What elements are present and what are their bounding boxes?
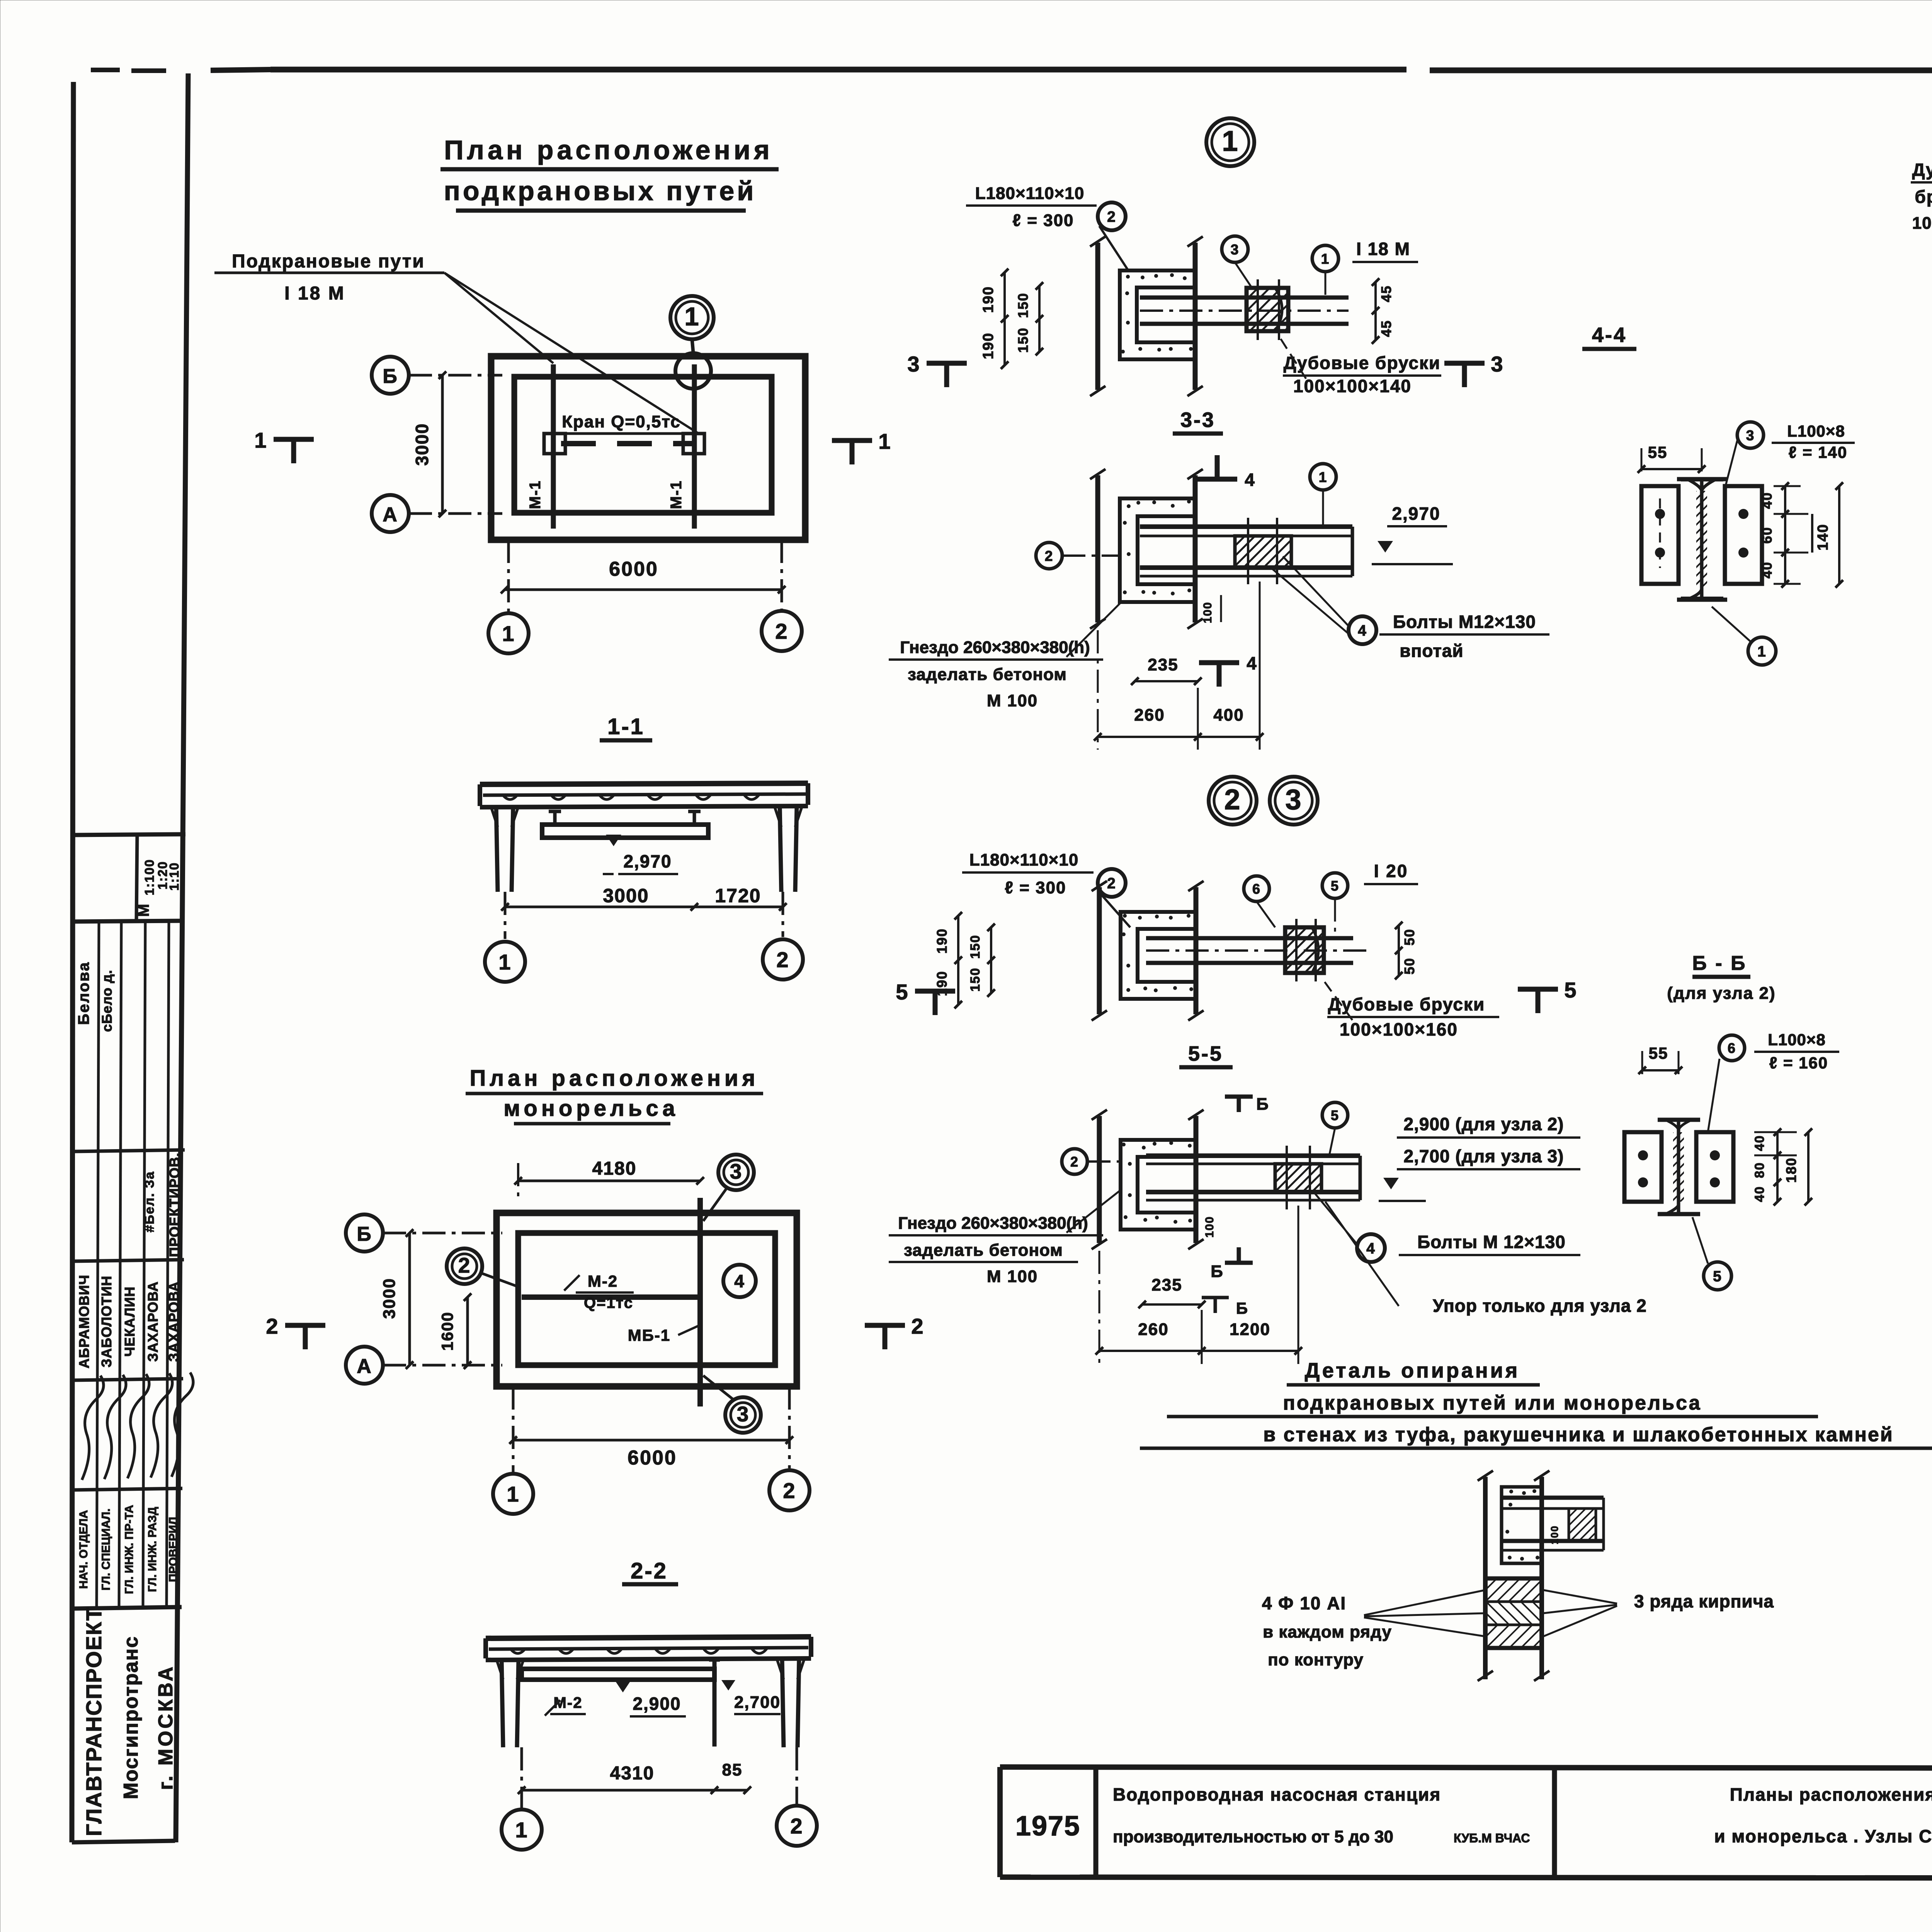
svg-text:2: 2	[266, 1314, 279, 1338]
svg-text:Планы расположения подкранов: Планы расположения подкрановых путей	[1730, 1784, 1932, 1804]
svg-text:Дубовые бруски: Дубовые бруски	[1328, 994, 1485, 1014]
svg-text:бруски: бруски	[1915, 187, 1932, 207]
svg-text:А: А	[357, 1355, 372, 1378]
svg-text:Деталь опирания: Деталь опирания	[1305, 1359, 1520, 1382]
svg-text:Гнездо 260×380×380(h): Гнездо 260×380×380(h)	[900, 638, 1090, 657]
svg-text:6000: 6000	[609, 558, 658, 580]
svg-text:4: 4	[1245, 469, 1255, 490]
svg-text:АБРАМОВИЧ: АБРАМОВИЧ	[76, 1275, 92, 1369]
svg-text:55: 55	[1648, 443, 1668, 461]
svg-text:5: 5	[1331, 1107, 1339, 1123]
svg-text:2: 2	[458, 1253, 471, 1277]
svg-text:монорельса: монорельса	[503, 1096, 679, 1121]
svg-text:1720: 1720	[715, 885, 761, 906]
svg-text:1:10: 1:10	[167, 862, 181, 891]
svg-text:4: 4	[1358, 622, 1367, 639]
svg-text:I 20: I 20	[1374, 861, 1408, 881]
svg-text:2: 2	[775, 619, 788, 643]
svg-text:М-2: М-2	[588, 1272, 618, 1290]
svg-text:100×100×160: 100×100×160	[1340, 1019, 1458, 1039]
svg-text:1: 1	[507, 1482, 519, 1506]
svg-text:3: 3	[907, 352, 920, 376]
svg-text:2: 2	[1107, 209, 1116, 225]
svg-text:50: 50	[1401, 929, 1417, 946]
svg-text:ЧЕКАЛИН: ЧЕКАЛИН	[122, 1286, 138, 1357]
svg-text:впотай: впотай	[1400, 641, 1463, 661]
svg-text:Мосгипротранс: Мосгипротранс	[120, 1636, 142, 1799]
svg-text:2: 2	[1045, 548, 1054, 564]
svg-text:1: 1	[254, 428, 267, 452]
svg-text:ЗАХАРОВА: ЗАХАРОВА	[166, 1281, 182, 1362]
svg-text:2,700: 2,700	[734, 1693, 781, 1712]
svg-text:180: 180	[1783, 1157, 1799, 1183]
svg-text:Дубовые бруски: Дубовые бруски	[1284, 353, 1441, 373]
svg-text:1: 1	[515, 1818, 528, 1842]
svg-text:2: 2	[911, 1314, 924, 1338]
svg-text:Гнездо 260×380×380(h): Гнездо 260×380×380(h)	[898, 1214, 1088, 1233]
svg-text:4 Ф 10 АI: 4 Ф 10 АI	[1262, 1593, 1346, 1613]
svg-text:5: 5	[1331, 878, 1339, 894]
svg-text:190: 190	[934, 928, 950, 954]
svg-text:2,700 (для узла 3): 2,700 (для узла 3)	[1404, 1146, 1564, 1166]
svg-text:1: 1	[502, 621, 515, 646]
svg-text:КУБ.М ВЧАС: КУБ.М ВЧАС	[1454, 1831, 1530, 1845]
svg-text:100: 100	[1201, 602, 1214, 623]
svg-text:55: 55	[1649, 1044, 1668, 1062]
svg-text:ПРОЕКТИРОВ.: ПРОЕКТИРОВ.	[167, 1153, 182, 1257]
svg-text:производительностью от 5 до 3: производительностью от 5 до 30	[1113, 1827, 1393, 1846]
svg-text:I 18 М: I 18 М	[1356, 239, 1410, 259]
svg-text:1-1: 1-1	[607, 714, 645, 739]
svg-text:3: 3	[1746, 427, 1755, 443]
svg-text:(для узла 2): (для узла 2)	[1667, 984, 1776, 1003]
svg-text:6: 6	[1252, 881, 1261, 897]
svg-text:ℓ = 160: ℓ = 160	[1769, 1054, 1828, 1072]
svg-text:40: 40	[1759, 492, 1775, 509]
svg-text:3000: 3000	[603, 885, 649, 906]
svg-text:L100×8: L100×8	[1768, 1031, 1826, 1049]
svg-text:2,970: 2,970	[623, 851, 672, 871]
svg-text:80: 80	[1752, 1162, 1767, 1178]
svg-text:1: 1	[1321, 251, 1330, 267]
svg-text:ГЛ. ИНЖ. РАЗД: ГЛ. ИНЖ. РАЗД	[146, 1507, 159, 1592]
svg-text:3 ряда кирпича: 3 ряда кирпича	[1634, 1591, 1774, 1611]
svg-text:МБ-1: МБ-1	[628, 1326, 671, 1344]
svg-text:Б: Б	[1211, 1262, 1224, 1281]
svg-text:40: 40	[1759, 561, 1775, 578]
svg-text:3: 3	[1491, 352, 1503, 376]
svg-text:4: 4	[734, 1271, 745, 1291]
svg-text:ГЛ. СПЕЦИАЛ.: ГЛ. СПЕЦИАЛ.	[100, 1509, 112, 1590]
svg-text:1975: 1975	[1015, 1811, 1080, 1842]
svg-text:2: 2	[776, 947, 789, 972]
svg-text:2,900 (для узла 2): 2,900 (для узла 2)	[1404, 1114, 1564, 1134]
svg-text:40: 40	[1752, 1186, 1767, 1202]
svg-text:260: 260	[1138, 1320, 1168, 1339]
svg-text:3000: 3000	[380, 1278, 399, 1319]
svg-text:6: 6	[1728, 1040, 1736, 1056]
svg-text:А: А	[383, 503, 398, 526]
svg-text:2: 2	[1107, 875, 1116, 892]
svg-text:Б: Б	[1236, 1299, 1248, 1317]
svg-text:100×100×140: 100×100×140	[1293, 376, 1412, 396]
svg-text:План расположения: План расположения	[470, 1066, 759, 1091]
svg-text:по контуру: по контуру	[1268, 1650, 1364, 1669]
svg-text:4310: 4310	[610, 1763, 655, 1784]
svg-text:140: 140	[1815, 524, 1831, 550]
svg-text:2-2: 2-2	[631, 1558, 668, 1583]
svg-text:#Бел. За: #Бел. За	[142, 1171, 157, 1233]
svg-text:150: 150	[968, 935, 983, 959]
svg-text:100×100×160: 100×100×160	[1912, 214, 1932, 233]
svg-text:150: 150	[1015, 293, 1031, 318]
svg-text:ГЛАВТРАНСПРОЕКТ: ГЛАВТРАНСПРОЕКТ	[82, 1607, 106, 1836]
svg-text:ЗАБОЛОТИН: ЗАБОЛОТИН	[99, 1276, 114, 1367]
svg-text:1: 1	[684, 302, 699, 331]
svg-text:5-5: 5-5	[1188, 1042, 1223, 1065]
svg-text:Дубовые: Дубовые	[1912, 160, 1932, 180]
svg-text:3-3: 3-3	[1180, 408, 1215, 432]
svg-text:3: 3	[1231, 241, 1240, 257]
svg-text:5: 5	[896, 980, 908, 1004]
svg-text:85: 85	[722, 1760, 743, 1779]
svg-text:3: 3	[1285, 783, 1302, 815]
svg-text:Б: Б	[383, 365, 398, 388]
svg-text:ГЛ. ИНЖ. ПР-ТА: ГЛ. ИНЖ. ПР-ТА	[123, 1505, 136, 1594]
svg-text:3: 3	[737, 1402, 750, 1426]
svg-text:Б: Б	[1256, 1095, 1269, 1114]
svg-text:1: 1	[878, 429, 891, 453]
svg-text:Q=1тс: Q=1тс	[584, 1294, 633, 1311]
svg-text:60: 60	[1759, 527, 1775, 544]
svg-text:260: 260	[1134, 706, 1165, 724]
svg-text:М-1: М-1	[668, 480, 685, 509]
svg-text:Болты М 12×130: Болты М 12×130	[1417, 1232, 1566, 1252]
svg-text:L180×110×10: L180×110×10	[975, 184, 1085, 203]
svg-text:ПРОВЕРИЛ: ПРОВЕРИЛ	[167, 1517, 180, 1582]
svg-text:заделать бетоном: заделать бетоном	[908, 665, 1067, 684]
svg-text:М-1: М-1	[527, 480, 544, 509]
svg-text:Белова: Белова	[75, 961, 92, 1025]
svg-text:3000: 3000	[412, 423, 432, 466]
svg-text:ℓ = 140: ℓ = 140	[1789, 443, 1847, 461]
svg-text:1: 1	[1757, 643, 1767, 660]
svg-text:190: 190	[980, 286, 997, 313]
svg-text:2: 2	[1224, 783, 1241, 815]
svg-text:Упор только для узла 2: Упор только для узла 2	[1433, 1296, 1647, 1316]
svg-text:L180×110×10: L180×110×10	[969, 850, 1079, 869]
svg-text:1600: 1600	[438, 1311, 456, 1350]
svg-text:150: 150	[968, 968, 983, 992]
svg-text:Б - Б: Б - Б	[1692, 952, 1747, 975]
svg-text:45: 45	[1378, 320, 1394, 337]
svg-text:1200: 1200	[1230, 1320, 1270, 1339]
svg-text:2,970: 2,970	[1392, 503, 1440, 524]
svg-text:4180: 4180	[592, 1158, 637, 1179]
svg-text:в стенах из туфа, ракушечника: в стенах из туфа, ракушечника и шлакобет…	[1263, 1423, 1894, 1446]
svg-text:235: 235	[1148, 655, 1178, 674]
svg-text:1: 1	[1319, 469, 1328, 485]
svg-text:6000: 6000	[628, 1447, 677, 1469]
svg-text:100: 100	[1549, 1525, 1560, 1544]
svg-text:Болты М12×130: Болты М12×130	[1393, 612, 1536, 632]
svg-text:подкрановых путей: подкрановых путей	[444, 176, 757, 206]
svg-text:М: М	[135, 903, 152, 917]
svg-text:Кран Q=0,5тс: Кран Q=0,5тс	[562, 412, 681, 431]
svg-text:План расположения: План расположения	[444, 135, 773, 165]
svg-text:1: 1	[1222, 125, 1238, 157]
svg-text:5: 5	[1713, 1268, 1722, 1285]
svg-text:ℓ = 300: ℓ = 300	[1005, 878, 1066, 897]
svg-text:2: 2	[790, 1814, 803, 1838]
svg-text:L100×8: L100×8	[1787, 422, 1845, 440]
svg-text:400: 400	[1213, 706, 1244, 724]
svg-text:4: 4	[1247, 653, 1257, 673]
svg-text:I 18 М: I 18 М	[284, 283, 345, 304]
svg-text:3: 3	[730, 1160, 743, 1184]
svg-text:150: 150	[1015, 327, 1031, 353]
svg-text:Б: Б	[357, 1223, 372, 1245]
svg-text:4-4: 4-4	[1592, 323, 1627, 347]
svg-text:50: 50	[1401, 957, 1417, 975]
svg-text:1: 1	[498, 950, 511, 974]
svg-text:190: 190	[980, 332, 997, 359]
svg-text:М 100: М 100	[987, 691, 1038, 710]
svg-text:2: 2	[1070, 1154, 1079, 1170]
svg-text:НАЧ. ОТДЕЛА: НАЧ. ОТДЕЛА	[77, 1510, 90, 1589]
svg-text:Подкрановые пути: Подкрановые пути	[232, 251, 425, 272]
svg-text:2,900: 2,900	[633, 1694, 681, 1714]
svg-text:в каждом ряду: в каждом ряду	[1263, 1622, 1392, 1641]
svg-text:ЗАХАРОВА: ЗАХАРОВА	[145, 1281, 161, 1362]
svg-text:4: 4	[1366, 1240, 1376, 1257]
svg-text:5: 5	[1564, 978, 1577, 1002]
svg-text:заделать бетоном: заделать бетоном	[904, 1241, 1063, 1260]
svg-text:подкрановых путей или монорель: подкрановых путей или монорельса	[1283, 1392, 1701, 1414]
svg-text:Водопроводная насосная станция: Водопроводная насосная станция	[1113, 1784, 1441, 1804]
svg-text:40: 40	[1752, 1135, 1767, 1151]
svg-text:ℓ = 300: ℓ = 300	[1012, 211, 1074, 230]
svg-text:М 100: М 100	[987, 1267, 1038, 1286]
svg-text:сБело д.: сБело д.	[99, 969, 115, 1032]
svg-text:235: 235	[1151, 1276, 1182, 1294]
svg-text:2: 2	[783, 1478, 796, 1503]
svg-text:100: 100	[1203, 1216, 1216, 1238]
svg-text:45: 45	[1378, 285, 1394, 302]
svg-text:1:100: 1:100	[142, 859, 156, 895]
svg-text:и монорельса . Узлы Специф: и монорельса . Узлы Спецификация	[1714, 1826, 1932, 1846]
svg-text:г. МОСКВА: г. МОСКВА	[155, 1665, 177, 1790]
